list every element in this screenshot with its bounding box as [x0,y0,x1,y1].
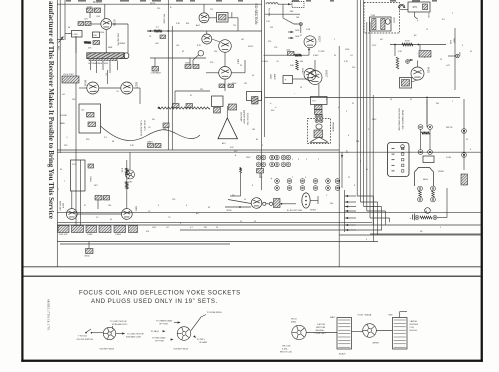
svg-text:TO 6AQ5: TO 6AQ5 [151,330,160,333]
svg-text:TO PIN: TO PIN [318,51,325,53]
wire hout top [426,99,428,125]
coil L205 [95,196,102,201]
svg-text:WHITE: WHITE [373,343,380,345]
resistor R62 [155,144,161,148]
socket row2 group5 pin1 [326,179,331,184]
tube V3 sound det [121,82,133,94]
socket row2 group6 pin1 [335,179,340,184]
wire sound mid drop [107,70,109,84]
wire v9 top [314,60,316,71]
capacitor C61 [186,104,193,108]
transformer T1 [72,31,83,38]
resistor R61 [148,144,154,148]
switch contact b [91,332,93,334]
wire sync stub 2 [288,37,294,39]
svg-text:460x/60A: 460x/60A [316,329,325,332]
svg-text:240K: 240K [295,30,300,32]
svg-text:6: 6 [186,205,187,207]
svg-text:MODEL 17T10 Ch. 17Y1: MODEL 17T10 Ch. 17Y1 [47,299,51,331]
resistor width [422,132,430,135]
peaking coil L40 [266,3,278,5]
tube V6 video det [219,40,232,53]
svg-text:7: 7 [64,181,65,183]
speaker cone base [310,141,329,143]
resistor R202 [126,182,129,189]
svg-text:5: 5 [440,227,441,229]
wire t1 left [65,33,72,35]
wire vert link [408,59,413,61]
svg-text:6SQ7: 6SQ7 [318,36,320,43]
junction v8 [308,49,310,51]
wire funnel stem [226,106,228,118]
arrowhead agc [148,30,151,32]
socket row2 group4 pin1 [313,179,318,184]
switch symbol [86,329,91,333]
svg-text:TO GREEN LEAD: TO GREEN LEAD [156,320,173,323]
wire v6-v7 [224,52,226,66]
arrowhead fan 1 [345,195,348,197]
svg-text:W4: W4 [436,103,439,105]
socket row2 group2 pin2 [287,186,292,191]
switch contact a [85,332,87,334]
wire tuner drop 5 [117,61,119,70]
svg-text:+: + [285,78,287,82]
neon lamp [198,50,204,56]
wire r101 drop [89,13,91,19]
svg-text:STC: STC [413,6,418,9]
wire shield rail [175,90,210,92]
svg-text:6AT8: 6AT8 [62,203,65,209]
svg-text:5V4G: 5V4G [427,13,429,19]
svg-text:.047: .047 [446,65,450,67]
top edge print fragment 11 [292,0,299,2]
svg-text:BL: BL [256,139,258,141]
junction hout [426,97,428,99]
svg-text:350V: 350V [405,41,410,43]
svg-text:6: 6 [348,135,349,137]
resistor R32 [228,84,234,88]
svg-text:3: 3 [462,45,463,47]
tube V12 noise inv [304,69,316,81]
coil L50 sound take-off [62,76,79,83]
wire winding R top [399,312,401,318]
wire sync stub 1 [288,31,294,33]
hv winding 1 [372,19,376,30]
svg-text:GANG: GANG [147,141,153,144]
wire video bus B [264,0,266,137]
tube outline horiz out [415,168,434,187]
yoke plug pins [305,196,307,206]
wire bundle 1 [356,0,358,196]
svg-text:470: 470 [146,231,149,233]
socket row2 group5 pin2 [326,186,331,191]
wire neon stem [193,55,199,66]
socket row1 group1 pin2 [261,155,266,160]
cap c201 [88,164,94,168]
speaker cone [311,137,328,142]
arrowhead row1 [240,167,242,170]
svg-text:2: 2 [292,177,293,179]
tube V15 damper [251,198,262,209]
socket row1 group2 pin2 [275,155,280,160]
wire row1 h [230,195,241,197]
socket row2 group1 pin1 [275,179,280,184]
svg-text:47: 47 [410,99,412,101]
pin width coil a [418,125,423,130]
socket row2 group2 pin1 [287,179,292,184]
contrast pot [152,67,159,72]
svg-text:19 IN. SETS: 19 IN. SETS [143,120,145,131]
svg-text:1: 1 [452,101,453,103]
wire v14 top [126,160,128,209]
tube V4 if amp 1 [199,13,209,23]
svg-text:COILS ONLY: COILS ONLY [315,333,327,335]
svg-text:W516: W516 [150,3,155,5]
top edge print fragment 7 [176,0,183,2]
svg-text:OF 6AX4: OF 6AX4 [199,341,208,344]
svg-text:230V: 230V [246,157,251,159]
svg-text:1 MEG: 1 MEG [115,234,121,236]
control cluster 6 [129,226,138,233]
wire fuse lead [191,315,206,331]
svg-text:100: 100 [108,205,111,207]
pin test point [299,23,302,26]
control cluster 1 [58,226,69,233]
svg-text:6.3/6L: 6.3/6L [282,349,288,351]
wire video rail [265,97,460,99]
wire video diag [283,18,300,24]
svg-text:6V6GT: 6V6GT [325,70,327,78]
svg-text:22: 22 [254,221,256,223]
if transformer core [219,15,227,21]
left page rule [21,0,23,362]
if transformer T20 [217,13,229,23]
svg-text:L103: L103 [73,34,79,36]
wire lower rail 2 [57,224,480,226]
socket W509 [103,327,115,339]
wire v13 out [77,213,121,215]
wire winding top rail [400,311,407,313]
wire left mid vertical 2 [80,160,82,228]
svg-text:1: 1 [334,39,335,41]
tube V10 vert out [411,67,424,80]
svg-text:R6: R6 [420,231,422,233]
wire v1 down [105,29,107,53]
wire vert rail [390,44,446,46]
wire fan bend horiz 1 [357,195,373,197]
svg-text:25: 25 [244,199,246,201]
socket row1 group3 pin3 [281,162,286,167]
svg-text:2: 2 [346,111,347,113]
wire mid rail [57,149,339,151]
svg-text:500: 500 [330,203,333,205]
plug pin b [320,115,323,118]
svg-text:SOCKET W509: SOCKET W509 [100,349,115,351]
plug W402A [363,324,377,338]
svg-text:82: 82 [182,51,184,53]
svg-text:C2: C2 [260,177,262,179]
socket row1 group2 pin4 [275,162,280,167]
svg-text:SOCKET: SOCKET [125,182,134,184]
svg-text:H LIN: H LIN [446,157,451,159]
resistor R201 [126,168,129,175]
wire video drop 283 [282,4,284,18]
svg-text:12: 12 [240,221,242,223]
transformer T2 [93,32,100,38]
wire width link [420,129,422,149]
wire bundle 2 [359,0,361,202]
capacitor C60 [173,104,180,108]
pin damp f [433,216,437,220]
arrowhead defl [341,155,343,158]
wire r stub 455 [448,55,455,57]
svg-text:8: 8 [424,57,425,59]
wire v3 out drop [139,88,141,104]
wire fan bend horiz 3 [364,206,382,208]
focus winding hatch R [394,320,406,347]
socket row2 group3 pin1 [300,179,305,184]
arrowhead shield [157,107,160,109]
hv transformer box [370,17,392,31]
svg-text:RATIO DET: RATIO DET [59,201,62,212]
wire fan bend vert 5 [389,218,391,222]
resistor R80 [402,43,413,46]
svg-text:1 MEG: 1 MEG [262,61,268,63]
wire tp drop [300,26,302,34]
control cluster 5 [114,226,126,233]
resistor R51 [88,122,96,127]
wire right out [370,233,481,235]
svg-text:22: 22 [348,177,350,179]
svg-text:8: 8 [252,185,253,187]
resistor R101 [87,8,94,13]
svg-text:7 ACC5B: 7 ACC5B [317,323,326,326]
socket row1 group1 pin3 [256,162,261,167]
svg-text:FOC: FOC [230,147,235,149]
resistor R20 agc [154,30,162,33]
top edge print fragment 2 [78,0,86,2]
svg-text:3: 3 [158,205,159,207]
svg-text:ON OFF SWITCH: ON OFF SWITCH [77,339,94,341]
focus coil winding R [393,318,408,350]
svg-text:R50: R50 [163,129,166,131]
wire w500 seg [225,206,251,208]
wire t20 drop [237,18,239,31]
svg-text:AGC: AGC [196,24,201,27]
top edge print fragment 4 [120,0,129,2]
pin lin coil a [418,150,423,155]
top edge print fragment 5 [140,0,146,2]
arrowhead pin5 [193,335,196,338]
resistor R30 [185,65,191,69]
svg-text:.01: .01 [350,55,353,57]
svg-text:8: 8 [354,185,355,187]
wire bundle 4 [366,22,368,211]
wire l40 out [278,3,292,5]
top edge print fragment 16 [432,0,437,2]
top edge print fragment 15 [412,0,420,2]
svg-text:ION TRAP: ION TRAP [240,112,243,122]
bottom page rule [21,360,483,362]
svg-text:6CB6: 6CB6 [113,20,117,27]
svg-text:FINE: FINE [108,47,113,49]
wire switch to socket [92,332,104,334]
fuse box top right [408,2,430,12]
junction vert 2 [418,44,420,46]
focus coil funnel [218,118,238,139]
tube V7 video amp [219,67,232,80]
wire bus tap 310 [265,13,300,15]
wire width link2 [429,129,431,149]
junction vert 1 [394,44,396,46]
wire damp link [437,217,447,219]
volume control box [71,160,86,191]
svg-text:REAR CHASSIS VIEW: REAR CHASSIS VIEW [401,110,404,130]
terminal board circle [401,145,405,149]
svg-text:1W: 1W [244,83,247,85]
svg-text:R52: R52 [86,139,89,141]
wire vert out [412,80,418,82]
wire det drop [189,58,191,65]
svg-text:COIL: COIL [410,327,414,329]
wire contrast drop [154,58,156,67]
wire mid rail 2 [57,151,480,153]
wire junction drop [112,326,114,329]
svg-text:3.3: 3.3 [104,137,107,139]
junction agc [167,30,169,32]
tuner block T100 [87,53,125,59]
svg-text:330: 330 [300,61,303,63]
svg-text:ADJ: ADJ [222,142,226,145]
svg-text:FOCUS COIL: FOCUS COIL [246,113,248,126]
tube V8 sync sep [304,36,316,48]
wire fan bend vert 2 [377,202,379,235]
junction mid chain [281,203,283,205]
svg-text:05: 05 [252,75,254,77]
resistor R81 [396,57,399,69]
wire lower rail 5 [57,241,378,243]
resistor R204 [295,54,302,57]
wire t1 down [75,37,77,54]
wire fan stub 3 [345,206,357,208]
svg-text:TONE: TONE [87,234,93,236]
svg-text:W500: W500 [85,256,90,258]
wire v9 plate drop [318,84,320,97]
yoke plug oval [302,193,310,208]
wire tuner drop 3 [102,61,104,70]
separator wire lower [24,275,481,277]
socket row1 group2 pin1 [270,155,275,160]
svg-text:1B3GT: 1B3GT [393,17,395,24]
coil L204 [288,52,295,56]
svg-text:.05: .05 [276,61,279,63]
socket row2 group6 pin2 [335,186,340,191]
capacitor row1 [257,169,264,174]
wire picture vertical [167,0,169,150]
top edge print fragment 6 [152,0,161,2]
capacitor C62 [163,123,169,128]
wire osc drop [104,4,106,18]
resistor R103 [85,22,91,26]
focus winding hatch L [338,320,350,347]
wire v5-v6 [212,39,220,42]
pin damp a [418,186,423,191]
svg-text:L41: L41 [241,39,244,41]
magnet horseshoe [399,4,405,7]
svg-text:PICTURE: PICTURE [268,8,270,17]
wire far right vertical [463,99,465,170]
separator wire upper [24,266,481,268]
plug pin a [315,115,318,118]
tuner shaft oval [124,53,129,59]
top edge print fragment 3 [96,0,102,2]
wire fan stub 6 [345,224,357,226]
resistor far right [461,174,468,185]
svg-text:220K: 220K [185,63,190,65]
coil L206 [104,196,110,201]
arrowhead fan 6 [345,224,348,226]
wire deflection stub [341,152,343,188]
svg-text:4: 4 [360,161,361,163]
wire fan bend vert 1 [373,196,375,242]
svg-text:HORIZ: HORIZ [310,210,317,212]
top edge print fragment 8 [190,0,195,2]
vert trans box [400,78,412,89]
wire fuse tick [415,12,418,19]
pin damp b [431,186,436,191]
svg-text:WIDTH: WIDTH [446,127,453,129]
svg-text:68: 68 [112,141,114,143]
antenna arrow [59,37,64,43]
wire b-boost rail [57,212,480,214]
ion trap block [229,104,237,110]
svg-text:L4 TUNER ASSY KRK: L4 TUNER ASSY KRK [88,62,109,65]
svg-text:HOR DEF: HOR DEF [410,324,419,326]
wire v2-v3 link [99,87,121,89]
socket row1 group2 pin3 [270,162,275,167]
svg-text:820: 820 [186,23,189,25]
hv cage dashed [364,3,400,34]
wire plug2 right [376,330,392,332]
wire sound bus [338,46,340,267]
wire v15 rail [228,200,251,204]
wire v7 bottom [224,79,226,91]
svg-text:30: 30 [208,207,210,209]
resistor R105 [84,41,91,44]
svg-text:220: 220 [157,8,160,10]
wire agc arrowstub [147,30,153,32]
arrowhead red [171,338,174,340]
wire socket link [116,333,125,335]
svg-text:470: 470 [94,91,97,93]
tube V9 audio out [308,71,322,85]
svg-text:PICTURE: PICTURE [163,14,165,24]
arrowhead green [178,321,181,323]
voice coil oval [316,124,322,129]
svg-text:250: 250 [352,67,355,69]
svg-text:1500: 1500 [100,32,104,34]
focus coil winding L [337,318,352,350]
svg-text:W5: W5 [232,195,235,197]
wire routing curve [101,126,201,141]
wire lower rail 3 [180,229,382,231]
svg-text:2: 2 [58,189,59,191]
wire v1 right drop [127,24,129,53]
capacitor block C70 [283,76,293,84]
svg-text:120K: 120K [232,83,237,85]
svg-text:5: 5 [262,145,263,147]
svg-text:+: + [235,154,237,158]
